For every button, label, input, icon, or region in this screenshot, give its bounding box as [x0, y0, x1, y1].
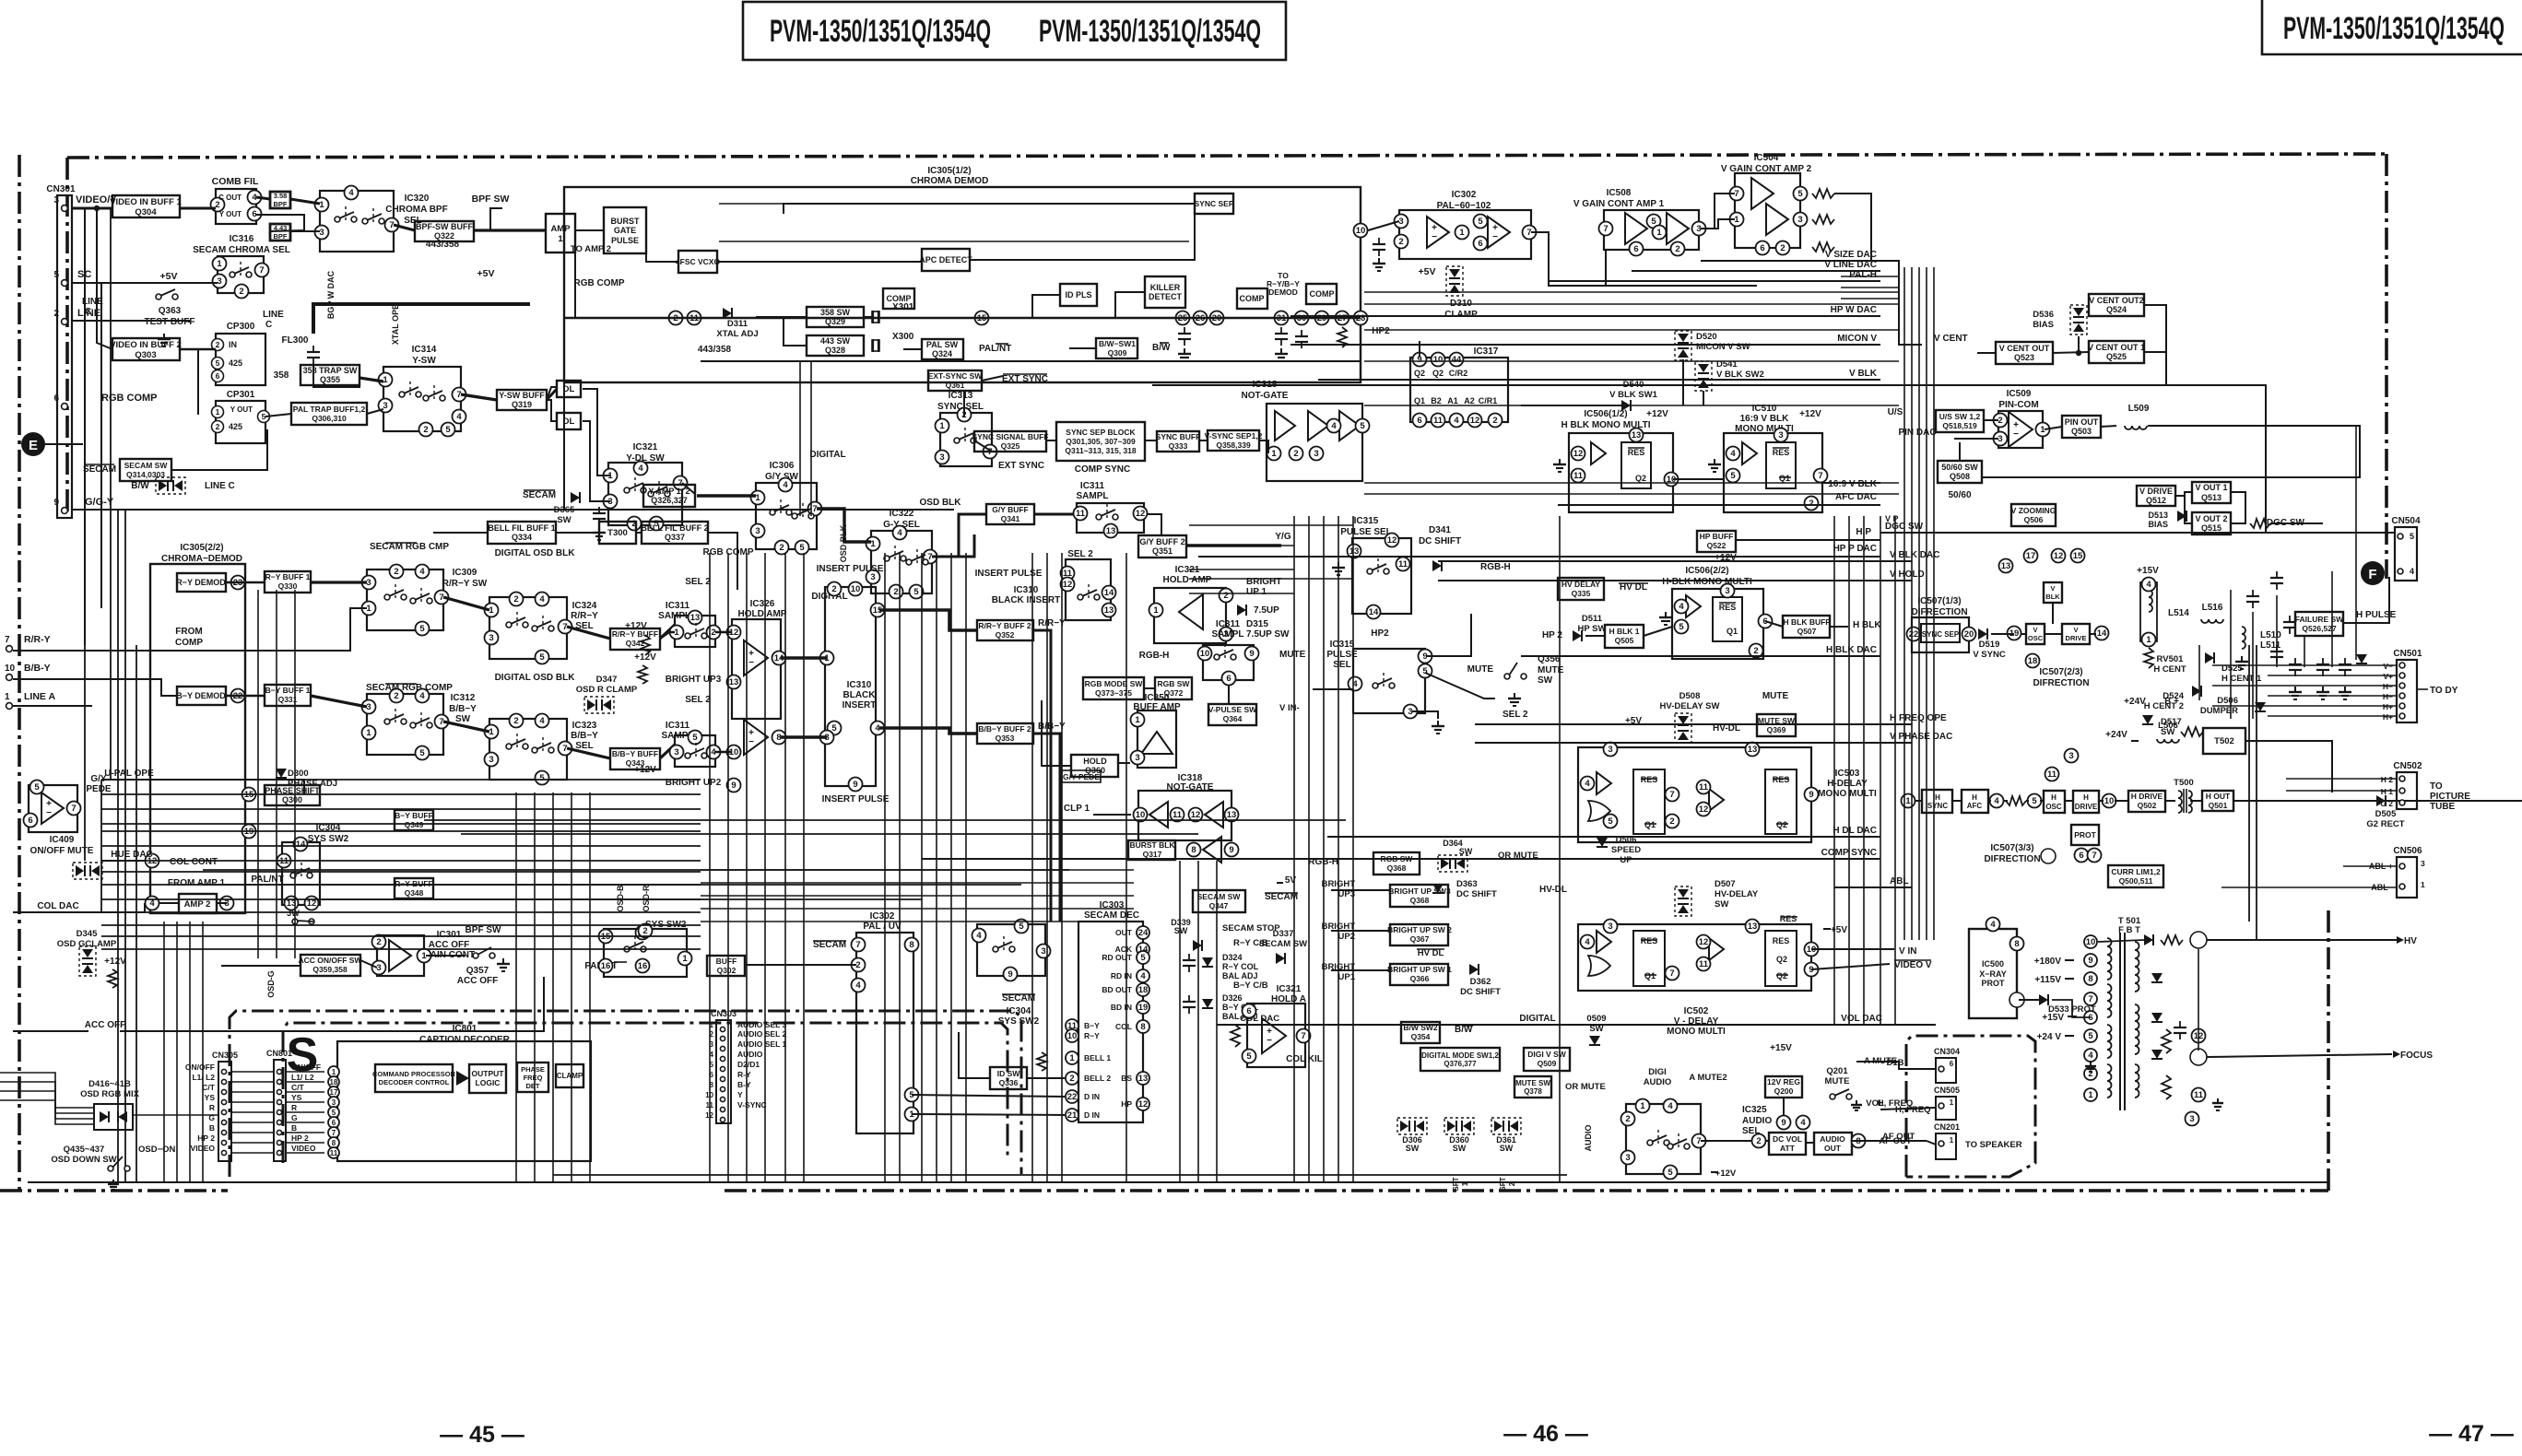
- IC503 pin 4: [1581, 777, 1595, 791]
- wire cn305-8: [231, 1132, 274, 1133]
- switch sys sw2 r: [972, 920, 1051, 981]
- IC502 pin 7: [1666, 967, 1679, 980]
- IC500 pin 4: [1986, 918, 2000, 932]
- svg-text:R−Y BUFF: R−Y BUFF: [395, 879, 433, 888]
- svg-text:IC321: IC321: [633, 442, 658, 452]
- svg-text:T502: T502: [2214, 736, 2234, 746]
- svg-text:BRIGHT UP SW 2: BRIGHT UP SW 2: [1387, 925, 1452, 934]
- label BELL 1 1: [1084, 1053, 1111, 1063]
- block RGB MODE SW Q373: [1083, 677, 1144, 699]
- wire bus v: [764, 553, 766, 1182]
- IC317 pin 10: [1432, 353, 1445, 367]
- svg-text:TUBE: TUBE: [2430, 802, 2456, 812]
- svg-text:D326: D326: [1222, 993, 1243, 1003]
- svg-text:X301: X301: [892, 302, 914, 312]
- wire BPF SW stub: [490, 208, 502, 230]
- block V DRIVE sm: [2062, 624, 2090, 644]
- svg-text:RGB COMP: RGB COMP: [574, 278, 625, 288]
- svg-text:Q361: Q361: [946, 381, 965, 390]
- svg-text:DIGI: DIGI: [1648, 1067, 1667, 1077]
- svg-text:Q336: Q336: [999, 1078, 1019, 1087]
- svg-text:1: 1: [674, 628, 679, 638]
- svg-text:−: −: [748, 658, 754, 668]
- label IC302 PAL-60-102: [1437, 190, 1491, 211]
- switch IC304 b: [599, 924, 692, 978]
- connector CN502: [2393, 761, 2422, 809]
- label AUDIO vert: [1584, 1125, 1593, 1152]
- wire bus h: [101, 884, 701, 886]
- svg-text:3: 3: [383, 401, 387, 411]
- cap d324: [1183, 954, 1196, 972]
- bus hp: [1736, 539, 1880, 541]
- label S big: [287, 1028, 319, 1082]
- wire cn801-8: [286, 1132, 324, 1133]
- wire bell out: [708, 533, 737, 590]
- svg-text:5: 5: [53, 270, 59, 280]
- CN301 pin 9 G/G-Y: [53, 497, 113, 513]
- block comb filter: [211, 189, 262, 224]
- svg-text:Y: Y: [737, 1090, 743, 1099]
- svg-text:13: 13: [2001, 561, 2011, 571]
- label IC508 V GAIN CONT AMP1: [1573, 188, 1665, 209]
- junction: [94, 205, 100, 211]
- svg-text:V CENT OUT: V CENT OUT: [1999, 344, 2050, 353]
- wire vout join: [2231, 492, 2245, 523]
- IC509 pin 1: [2036, 423, 2050, 437]
- label BRIGHT UP3: [666, 675, 722, 685]
- wire bundle v: [100, 780, 102, 912]
- svg-text:V GAIN CONT AMP 1: V GAIN CONT AMP 1: [1573, 199, 1665, 209]
- IC317 pin 6: [1413, 414, 1427, 428]
- wire: [1701, 219, 1735, 229]
- svg-text:2: 2: [642, 926, 647, 936]
- wire bus v7: [257, 590, 259, 958]
- gnd y path: [593, 527, 606, 540]
- svg-text:OR MUTE: OR MUTE: [1565, 1082, 1606, 1092]
- block ACC ON/OFF SW Q359: [299, 955, 363, 976]
- wire bus v2: [552, 793, 554, 1182]
- block R/R-Y BUFF Q342: [610, 628, 660, 650]
- block RGB SW Q368: [1373, 852, 1420, 875]
- svg-text:DRIVE: DRIVE: [2066, 634, 2087, 642]
- CN305 pin 2 L1/ L2: [192, 1073, 313, 1085]
- svg-text:IC324: IC324: [572, 601, 597, 611]
- svg-text:IC500: IC500: [1982, 959, 2004, 969]
- block DL lower: [557, 413, 581, 429]
- coil L509: [2125, 404, 2150, 429]
- svg-text:H−: H−: [2383, 682, 2393, 691]
- cap ic305 a: [1178, 327, 1191, 346]
- svg-text:5: 5: [1608, 816, 1613, 827]
- svg-text:V: V: [2033, 626, 2037, 634]
- label R-Y C/B: [1233, 938, 1268, 948]
- PALUV pin 7: [852, 938, 866, 952]
- gnd ic302: [1373, 258, 1385, 271]
- block SECAM SW Q347: [1193, 890, 1245, 912]
- CN303 pin 4: [710, 1050, 763, 1062]
- label RGB-H b: [1139, 651, 1170, 661]
- label OSD-G vert: [266, 970, 276, 998]
- svg-text:BPF SW: BPF SW: [466, 925, 501, 935]
- IC321h pin 1: [1149, 604, 1163, 617]
- block H BLK BUFF Q507: [1783, 616, 1831, 638]
- label MICON V: [1837, 334, 1877, 344]
- diode d324: [1202, 957, 1213, 967]
- label JW: [287, 909, 314, 924]
- svg-text:OSC: OSC: [2045, 803, 2062, 811]
- diode d326: [1202, 999, 1213, 1008]
- wire: [547, 400, 557, 421]
- wire: [547, 387, 557, 400]
- label INSERT PULSE c: [975, 569, 1043, 579]
- svg-text:21: 21: [1067, 1110, 1078, 1121]
- label LINE C mid: [263, 310, 284, 330]
- block RGB SW Q372: [1155, 677, 1192, 699]
- border caption outer: [230, 1011, 1021, 1177]
- label +5V: [160, 271, 178, 282]
- svg-text:C/T: C/T: [291, 1083, 305, 1092]
- svg-text:OUT: OUT: [1824, 1144, 1842, 1153]
- label MUTE a: [1467, 664, 1494, 675]
- svg-text:RES: RES: [1719, 603, 1737, 612]
- block V OSC sm: [2026, 624, 2045, 644]
- label XTAL OPE vertical: [391, 304, 400, 345]
- border chain top: [67, 154, 2386, 158]
- IC301 pin 2: [372, 935, 386, 949]
- svg-text:13: 13: [1138, 1074, 1149, 1084]
- block T300: [599, 522, 636, 544]
- svg-text:BGP W DAC: BGP W DAC: [326, 270, 336, 319]
- wire bus v3: [1293, 516, 1295, 1182]
- svg-text:Q523: Q523: [2014, 353, 2034, 362]
- wire osd in: [0, 1091, 94, 1119]
- IC block IC508: [1604, 210, 1699, 250]
- IC326 pin 10: [727, 746, 741, 759]
- IC326 pin 8: [772, 731, 786, 745]
- svg-text:IC322: IC322: [890, 509, 914, 519]
- H row pin 1: [1902, 794, 1915, 808]
- wire: [903, 348, 922, 350]
- IC801 pin 17: [328, 1086, 339, 1098]
- label IC315 PULSE SEL a: [1340, 516, 1392, 537]
- CN301 pin 5 SC: [53, 269, 91, 286]
- IC303 pin 14 ACK: [1137, 943, 1149, 956]
- svg-text:OSD-R: OSD-R: [642, 885, 651, 912]
- svg-text:+115V: +115V: [2034, 975, 2061, 985]
- svg-text:1: 1: [1640, 1101, 1645, 1111]
- label IC312 B/B-Y SW: [449, 693, 477, 724]
- IC block IC305 outline: [564, 187, 1361, 382]
- IC507 pin 18: [2026, 654, 2040, 668]
- block V DRIVE Q512: [2137, 486, 2175, 506]
- IC317 pin 44: [1450, 353, 1464, 367]
- label D339 SW: [1171, 918, 1191, 935]
- svg-text:D520: D520: [1696, 332, 1717, 342]
- svg-text:Q500,511: Q500,511: [2119, 876, 2153, 886]
- wire cn305-9: [231, 1142, 274, 1144]
- svg-text:COL DAC: COL DAC: [37, 901, 78, 911]
- svg-text:16: 16: [601, 961, 611, 971]
- label IC318 NOT-GATE: [1242, 380, 1289, 401]
- wire: [1984, 419, 1998, 421]
- svg-text:SFT: SFT: [1499, 1177, 1507, 1191]
- svg-text:AUDIO SEL 3: AUDIO SEL 3: [737, 1020, 786, 1029]
- diode pair D310: [1446, 266, 1463, 296]
- wire: [1915, 800, 1922, 802]
- wire ic305 inner partition: [701, 360, 1361, 362]
- IC305 pin 19: [242, 825, 256, 839]
- svg-text:12: 12: [1573, 449, 1584, 459]
- svg-text:2: 2: [1753, 646, 1758, 656]
- wire: [974, 440, 992, 452]
- bus V HOLD: [1438, 580, 1912, 581]
- wire bell in: [433, 532, 488, 534]
- svg-text:7: 7: [812, 504, 817, 514]
- pin 21 D IN: [1066, 1109, 1078, 1121]
- wire bus h: [101, 808, 701, 810]
- diode D524: [2144, 686, 2201, 711]
- IC510 pin 5: [1727, 469, 1740, 483]
- svg-text:3: 3: [1625, 1153, 1630, 1163]
- svg-text:4: 4: [419, 691, 425, 701]
- wire: [2021, 633, 2026, 635]
- wire bus v8: [799, 361, 801, 516]
- svg-text:Q303: Q303: [135, 350, 156, 360]
- IC506-2 pin 6: [1759, 615, 1773, 628]
- svg-text:9: 9: [2088, 956, 2092, 966]
- svg-text:H 1: H 1: [2381, 787, 2394, 796]
- wire cn501 stub: [2268, 715, 2397, 717]
- res ic504 c: [1812, 242, 1834, 252]
- svg-text:BLACK: BLACK: [843, 690, 877, 700]
- IC508 pin 6: [1630, 242, 1644, 256]
- IC503 pin 3: [1604, 743, 1618, 757]
- caps deflection: [2270, 571, 2351, 676]
- diode D533: [2039, 994, 2096, 1015]
- wire bus v: [965, 553, 967, 1182]
- wire dl2: [583, 421, 610, 501]
- svg-text:50/60: 50/60: [1948, 490, 1971, 500]
- svg-text:LINE C: LINE C: [205, 481, 235, 491]
- IC801 pin 1: [328, 1066, 339, 1077]
- svg-text:−: −: [1267, 1036, 1272, 1046]
- svg-text:5: 5: [216, 358, 220, 368]
- svg-text:HP W DAC: HP W DAC: [1831, 305, 1877, 315]
- bus h dl dac: [1327, 836, 1880, 838]
- label 358: [274, 370, 289, 381]
- label RGB-H a: [1480, 562, 1511, 572]
- label BPF SW b: [466, 925, 501, 935]
- svg-text:358: 358: [274, 370, 289, 381]
- connector CN504: [2391, 516, 2421, 581]
- label IC321 HOLD AMP b: [1271, 984, 1306, 1004]
- svg-text:OSD R CLAMP: OSD R CLAMP: [576, 685, 638, 695]
- IC801 pin 6: [328, 1117, 339, 1128]
- svg-text:Q334: Q334: [512, 533, 532, 542]
- IC321h pin 2: [1220, 589, 1233, 603]
- block 3.58 BPF: [270, 192, 290, 208]
- svg-text:B−Y DEMOD: B−Y DEMOD: [176, 691, 226, 700]
- filter FL300: [282, 335, 320, 364]
- gnd ic315b: [1432, 721, 1444, 734]
- bus gy buff: [932, 514, 986, 557]
- svg-text:V SIZE DAC: V SIZE DAC: [1825, 250, 1877, 260]
- svg-text:IC306: IC306: [770, 461, 795, 471]
- block G/Y BUFF Q341: [986, 504, 1034, 524]
- svg-text:VIDEO V: VIDEO V: [1894, 960, 1932, 970]
- border chain left outer: [18, 155, 21, 1191]
- label Y OUT CP301: [230, 405, 253, 414]
- bus ic309 out: [443, 597, 489, 610]
- wire bus h3: [1364, 303, 1899, 305]
- switch IC315 a: [1348, 534, 1412, 619]
- CN501 pin H−: [2383, 692, 2393, 701]
- IC block IC305-2 outline: [150, 564, 245, 913]
- wire: [367, 409, 383, 414]
- cap l516: [2246, 590, 2259, 608]
- svg-text:AUDIO: AUDIO: [1584, 1125, 1593, 1152]
- PALUV pin 2: [852, 958, 866, 972]
- wire bus v2: [534, 793, 536, 1182]
- IC326 pin 13: [727, 675, 741, 689]
- block V OUT1 Q513: [2192, 482, 2231, 503]
- svg-text:1: 1: [1950, 1136, 1954, 1145]
- svg-text:+12V: +12V: [1646, 409, 1668, 419]
- svg-text:2: 2: [1293, 449, 1298, 459]
- svg-text:4: 4: [539, 594, 545, 605]
- svg-text:DIGI V SW: DIGI V SW: [1527, 1050, 1567, 1059]
- svg-text:4: 4: [1730, 449, 1736, 459]
- IC510 pin 7: [1814, 469, 1828, 483]
- diode pair D536: [2033, 305, 2087, 335]
- IC303 pin 8 COL: [1137, 1020, 1149, 1033]
- label IC311 SAMPL b: [662, 721, 694, 741]
- svg-text:3: 3: [376, 963, 381, 973]
- block R-Y BUFF1 Q330: [265, 571, 311, 593]
- svg-text:SEL: SEL: [1333, 660, 1350, 670]
- svg-text:H+: H+: [2383, 712, 2393, 722]
- IC302 pin 2: [1395, 235, 1408, 249]
- svg-text:IC313: IC313: [949, 391, 973, 401]
- svg-text:6: 6: [1417, 416, 1421, 426]
- svg-text:Q522: Q522: [1707, 541, 1727, 550]
- svg-text:RD IN: RD IN: [1111, 971, 1132, 980]
- svg-text:3: 3: [1778, 430, 1783, 440]
- wire cn501 stub: [2268, 675, 2397, 676]
- T501 pin 10: [2084, 935, 2097, 948]
- label +12V d347: [625, 621, 647, 631]
- svg-text:8: 8: [1140, 1022, 1145, 1032]
- svg-text:12: 12: [1063, 580, 1073, 590]
- svg-text:7.5UP: 7.5UP: [1254, 605, 1279, 616]
- label D IN 21: [1084, 1110, 1100, 1120]
- label IC311 SAMPL d: [1212, 619, 1244, 640]
- label D326 B-Y COL BAL ADJ: [1222, 993, 1259, 1021]
- wire defl v: [2198, 949, 2199, 1051]
- svg-text:4FSC VCXO: 4FSC VCXO: [676, 257, 721, 266]
- diode D506 DUMPER: [2200, 696, 2266, 716]
- wire osd in: [0, 1100, 94, 1124]
- svg-text:8: 8: [2014, 939, 2019, 949]
- wire cn305-10: [231, 1152, 274, 1154]
- IC510 pin 2: [1805, 497, 1819, 511]
- wire cn801-3: [286, 1091, 324, 1093]
- wire cn305-7: [231, 1121, 274, 1123]
- svg-text:D347: D347: [596, 675, 618, 685]
- svg-text:1: 1: [1950, 1098, 1954, 1107]
- svg-text:22: 22: [1909, 629, 1919, 640]
- label +12V c: [1715, 553, 1737, 563]
- pin 15 c1: [636, 926, 650, 940]
- svg-text:Y OUT: Y OUT: [230, 405, 253, 414]
- svg-text:6: 6: [252, 209, 256, 219]
- svg-text:V LINE DAC: V LINE DAC: [1824, 260, 1877, 270]
- svg-text:+12V: +12V: [1799, 409, 1821, 419]
- svg-text:12: 12: [1699, 804, 1709, 815]
- label D345 OSD GCLAMP: [57, 929, 117, 949]
- svg-text:16: 16: [638, 961, 648, 971]
- IC507 pin 14: [2095, 627, 2109, 640]
- svg-text:Y/G: Y/G: [1275, 532, 1290, 542]
- label D540 V BLK SW1: [1609, 380, 1657, 400]
- svg-text:Q358,339: Q358,339: [1216, 440, 1251, 450]
- svg-text:11: 11: [1173, 810, 1183, 820]
- wire v right a: [2248, 645, 2250, 922]
- audio pin 4: [1797, 1116, 1810, 1130]
- label IC303 SECAM DEC: [1084, 900, 1139, 921]
- svg-text:10: 10: [1433, 355, 1444, 365]
- svg-text:Q306,310: Q306,310: [312, 414, 347, 423]
- label D508 HV-DELAY SW: [1660, 691, 1720, 711]
- svg-text:CN502: CN502: [2393, 761, 2422, 771]
- wire pin dac in: [1954, 438, 1998, 440]
- svg-text:7: 7: [332, 1129, 336, 1137]
- svg-text:5: 5: [692, 733, 698, 743]
- label HV-DL c: [1539, 885, 1567, 895]
- label BS ic303: [1121, 1074, 1132, 1083]
- label AF OUT c: [1879, 1136, 1912, 1146]
- wire bus v: [1031, 553, 1033, 1182]
- svg-text:D505: D505: [2375, 809, 2397, 819]
- svg-text:D337: D337: [1273, 929, 1294, 939]
- wire: [781, 735, 827, 738]
- label IC304 SYS SW2 d: [998, 1006, 1040, 1027]
- svg-text:11: 11: [1433, 416, 1444, 426]
- svg-text:16:9 V BLK: 16:9 V BLK: [1740, 414, 1790, 424]
- svg-text:SECAM SW: SECAM SW: [1197, 892, 1242, 901]
- svg-text:12: 12: [1387, 535, 1397, 546]
- diode D517 SW: [2142, 715, 2182, 737]
- IC305 pin 30: [1295, 311, 1309, 325]
- svg-text:2: 2: [1492, 416, 1497, 426]
- svg-text:V+: V+: [2383, 672, 2393, 681]
- label INSERT PULSE a: [817, 564, 884, 574]
- svg-text:INSERT PULSE: INSERT PULSE: [817, 564, 884, 574]
- res fbt r2: [2162, 1075, 2171, 1099]
- svg-text:4: 4: [1994, 796, 1999, 806]
- svg-text:Q359,358: Q359,358: [312, 965, 348, 974]
- svg-text:DC SHIFT: DC SHIFT: [1419, 536, 1461, 546]
- svg-text:3: 3: [939, 452, 944, 463]
- wire bus h2: [424, 819, 1346, 821]
- svg-text:CN501: CN501: [2393, 649, 2422, 659]
- wire: [575, 229, 604, 231]
- svg-text:+24V: +24V: [2124, 697, 2146, 707]
- wire d536: [2078, 336, 2080, 353]
- svg-text:— 45 —: — 45 —: [440, 1422, 524, 1448]
- svg-text:4: 4: [1800, 1118, 1806, 1128]
- label OSD-R vert: [642, 885, 651, 912]
